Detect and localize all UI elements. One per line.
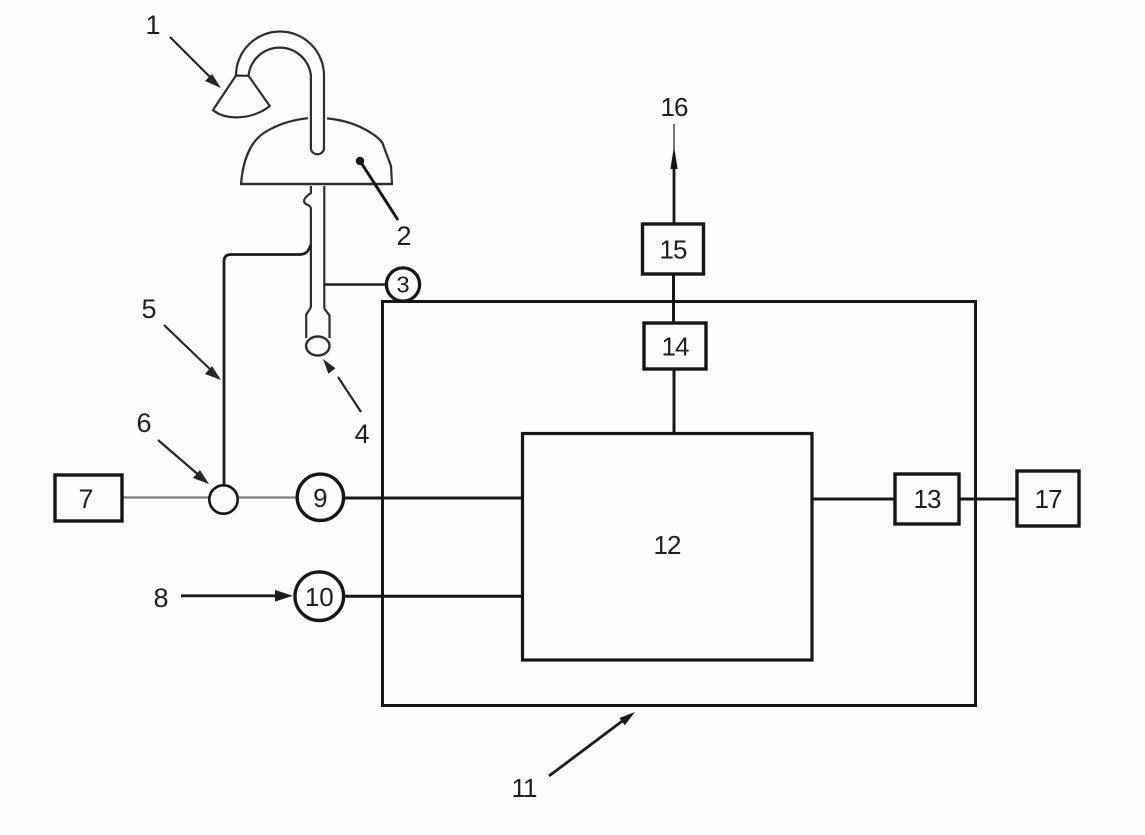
svg-text:8: 8: [153, 583, 168, 613]
arrow leader for 5: [164, 325, 221, 380]
line 10 to inner box 12: [344, 595, 523, 598]
arrow leader for 6: [158, 440, 209, 484]
line 14 to 12: [673, 369, 676, 434]
svg-text:4: 4: [354, 419, 369, 449]
dot and leader for label 2: [356, 157, 398, 220]
nozzle 4 mouth ellipse: [306, 337, 329, 356]
svg-text:1: 1: [145, 10, 160, 40]
svg-text:6: 6: [136, 408, 151, 438]
box 17: [1017, 471, 1079, 526]
svg-text:14: 14: [662, 332, 689, 362]
box 15: [643, 224, 704, 274]
arrow leader for 4: [323, 359, 361, 412]
big box 11: [383, 302, 976, 706]
line 15 to 14: [672, 274, 675, 323]
arrow leader for 1: [170, 37, 221, 88]
svg-text:2: 2: [396, 221, 411, 251]
arrow 8 to circle 10: [181, 590, 293, 602]
node 6: [209, 485, 237, 513]
svg-text:5: 5: [141, 294, 156, 324]
line 12 to 13: [812, 498, 895, 501]
svg-text:7: 7: [78, 484, 93, 514]
circle 10: [295, 572, 344, 621]
svg-text:10: 10: [305, 582, 334, 612]
svg-text:9: 9: [313, 483, 327, 513]
svg-text:11: 11: [512, 773, 538, 803]
line 9 to inner box 12: [344, 497, 523, 500]
gooseneck tube: [236, 32, 324, 155]
gray line from box 7 through node 6 to circle 9: [122, 496, 297, 498]
box 7: [55, 475, 122, 521]
line 13 to 17: [959, 498, 1017, 501]
svg-text:17: 17: [1035, 484, 1062, 514]
inner box 12: [523, 434, 813, 661]
branch pipe 5: [224, 245, 311, 486]
circle 9: [297, 474, 343, 520]
outlet pipe below dome (left line with kink): [304, 186, 311, 308]
dome 2 base: [240, 183, 393, 185]
svg-text:15: 15: [660, 235, 687, 265]
svg-text:3: 3: [396, 272, 409, 298]
funnel cone 1: [213, 76, 270, 118]
arrow leader for 11: [549, 712, 635, 776]
svg-text:12: 12: [654, 530, 681, 560]
circle 3: [386, 268, 419, 301]
box 14: [644, 323, 706, 369]
dome 2 left arc: [241, 118, 308, 184]
nozzle 4 body: [306, 308, 329, 339]
line to circle 3: [324, 283, 387, 286]
box 13: [895, 474, 959, 524]
svg-text:13: 13: [914, 484, 941, 514]
svg-text:16: 16: [661, 92, 688, 122]
dome 2 right arc: [327, 118, 392, 184]
arrow 16 (upward): [670, 124, 677, 224]
outlet pipe below dome (right line): [323, 186, 325, 309]
